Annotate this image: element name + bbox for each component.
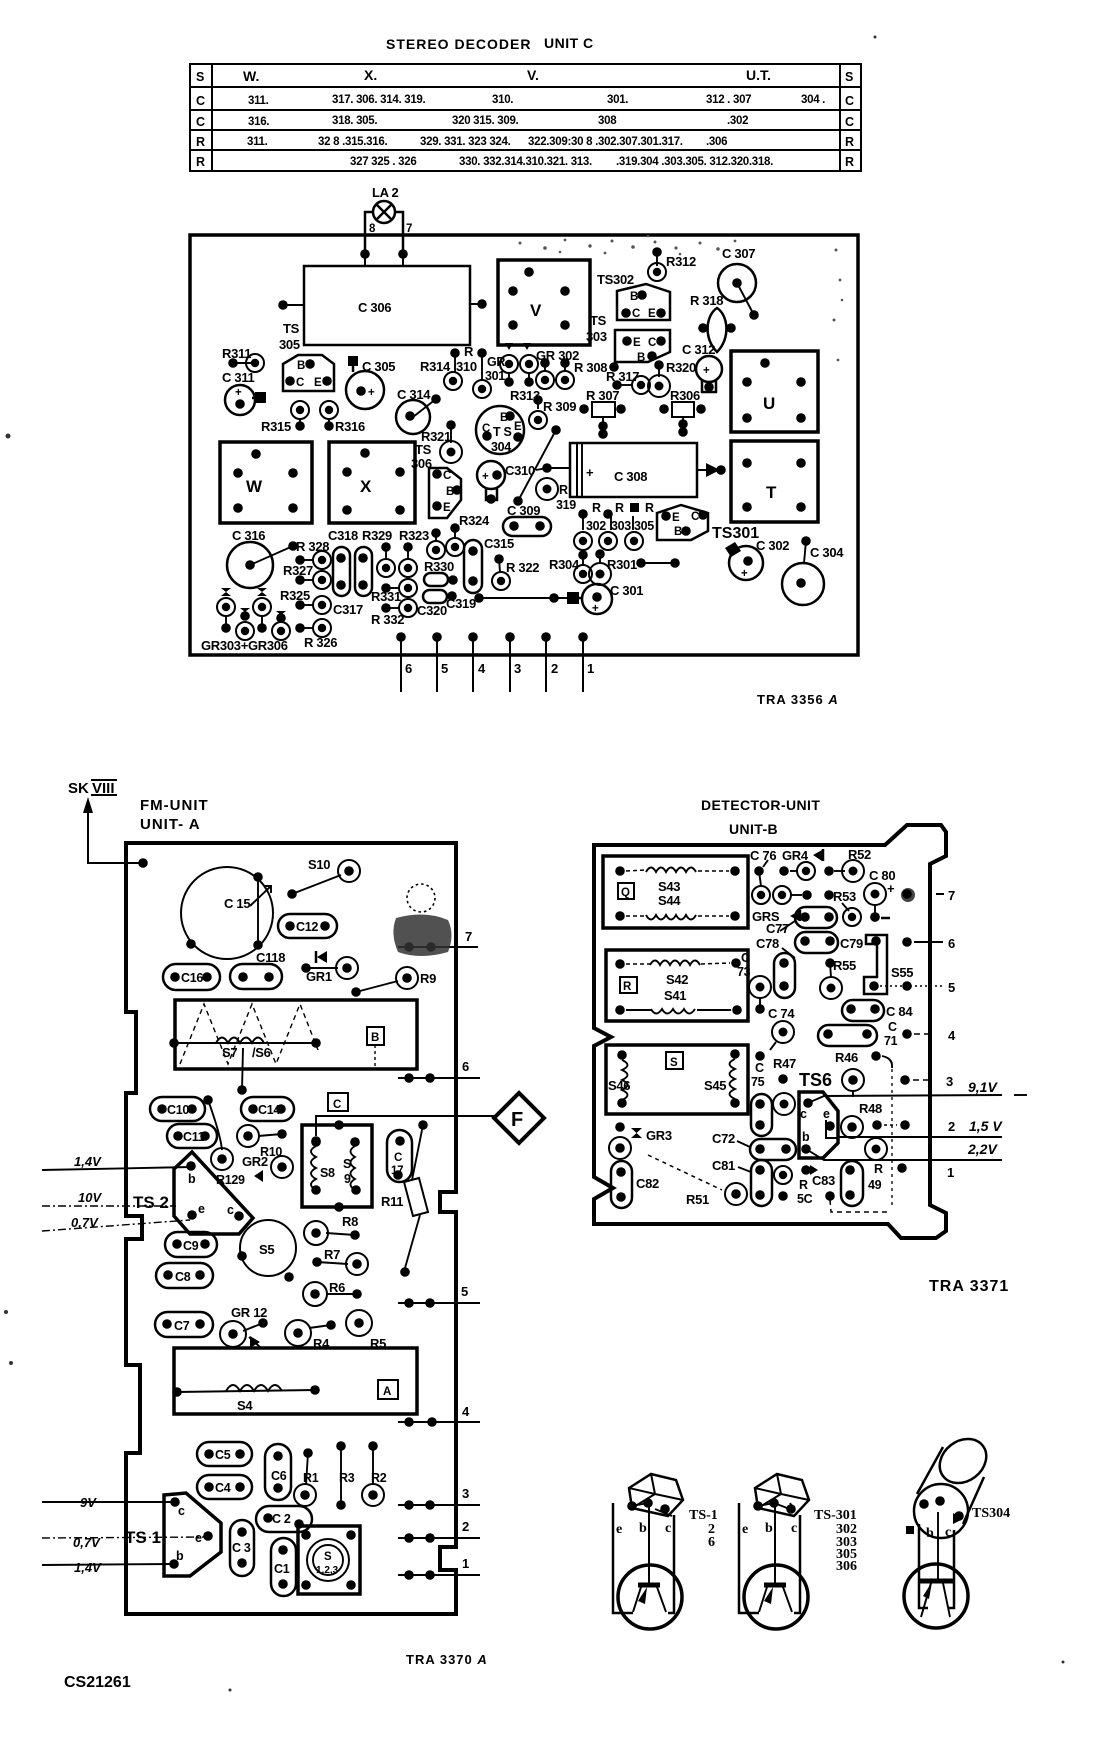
svg-text:49: 49 bbox=[868, 1178, 882, 1192]
resistor R304 bbox=[549, 550, 592, 583]
table column headers W X V U.T. bbox=[243, 67, 771, 84]
svg-text:GR3: GR3 bbox=[646, 1128, 672, 1143]
svg-text:C6: C6 bbox=[271, 1469, 287, 1483]
svg-text:10V: 10V bbox=[78, 1190, 102, 1205]
resistor R301 bbox=[589, 549, 680, 585]
svg-text:303: 303 bbox=[611, 519, 631, 533]
wire F to S8 box bbox=[311, 1116, 494, 1146]
board pin 6 bbox=[396, 632, 412, 692]
svg-text:4: 4 bbox=[478, 661, 486, 676]
svg-text:C4: C4 bbox=[215, 1481, 231, 1495]
resistor R327 bbox=[283, 563, 331, 589]
node pad R53 lower bbox=[843, 908, 880, 926]
svg-text:R: R bbox=[645, 501, 654, 515]
transistor TS6 bbox=[799, 1070, 838, 1158]
coil box V bbox=[498, 260, 590, 345]
svg-text:+: + bbox=[586, 465, 594, 480]
resistors R314 R310 bbox=[420, 344, 491, 398]
svg-text:311.: 311. bbox=[248, 95, 269, 107]
svg-text:.306: .306 bbox=[706, 136, 727, 148]
board pin 4 bbox=[468, 632, 486, 692]
svg-text:R47: R47 bbox=[773, 1056, 796, 1071]
svg-text:3: 3 bbox=[462, 1486, 469, 1501]
svg-text:R 318: R 318 bbox=[690, 293, 723, 308]
svg-text:R 309: R 309 bbox=[543, 399, 576, 414]
svg-text:+: + bbox=[368, 387, 375, 399]
svg-text:C 312: C 312 bbox=[682, 342, 715, 357]
capacitor C76 bbox=[750, 848, 776, 886]
svg-text:9: 9 bbox=[344, 1172, 351, 1186]
svg-text:S7: S7 bbox=[222, 1045, 237, 1060]
board pin 7 bbox=[398, 929, 478, 952]
capacitor C4 bbox=[197, 1475, 252, 1499]
svg-text:B: B bbox=[637, 352, 645, 364]
svg-text:306: 306 bbox=[836, 1559, 857, 1574]
svg-text:5: 5 bbox=[441, 661, 448, 676]
table row C2 values bbox=[248, 115, 748, 128]
resistor R55 bbox=[820, 958, 856, 999]
svg-text:C77: C77 bbox=[766, 921, 789, 936]
svg-text:e: e bbox=[198, 1202, 205, 1216]
svg-text:S10: S10 bbox=[308, 857, 330, 872]
svg-text:R6: R6 bbox=[329, 1280, 345, 1295]
capacitor C12 bbox=[278, 914, 337, 938]
table row R values bbox=[247, 136, 727, 148]
table row C values bbox=[248, 94, 825, 107]
table frame bbox=[190, 64, 861, 171]
board pin 5 bbox=[432, 632, 448, 692]
svg-text:1: 1 bbox=[947, 1165, 954, 1180]
diode GR301 bbox=[485, 343, 538, 387]
transistor TS301 outline bbox=[657, 505, 708, 540]
svg-text:C11: C11 bbox=[183, 1130, 205, 1144]
svg-text:C: C bbox=[648, 337, 656, 349]
svg-text:C14: C14 bbox=[258, 1103, 280, 1117]
svg-text:R312: R312 bbox=[666, 254, 696, 269]
node 10V bbox=[42, 1190, 176, 1206]
capacitor C81 bbox=[712, 1158, 772, 1206]
transistor package TS-1 drawing bbox=[613, 1474, 718, 1629]
svg-text:TRA 3371: TRA 3371 bbox=[929, 1278, 1009, 1295]
svg-text:C: C bbox=[632, 308, 640, 320]
svg-text:310: 310 bbox=[456, 359, 477, 374]
transistor package TS-301 drawing bbox=[739, 1474, 857, 1629]
svg-text:R51: R51 bbox=[686, 1192, 709, 1207]
svg-text:c: c bbox=[791, 1521, 797, 1536]
svg-text:C: C bbox=[691, 511, 699, 523]
svg-text:C318: C318 bbox=[328, 528, 358, 543]
transistor TS304 can bbox=[476, 406, 524, 454]
board pin 3 bbox=[900, 1074, 953, 1089]
resistor R52 bbox=[842, 847, 871, 882]
svg-text:TS304: TS304 bbox=[972, 1506, 1010, 1521]
svg-text:c: c bbox=[945, 1525, 951, 1540]
svg-text:DETECTOR-UNIT: DETECTOR-UNIT bbox=[701, 797, 820, 813]
resistor R8 bbox=[304, 1214, 360, 1245]
svg-text:C72: C72 bbox=[712, 1131, 735, 1146]
capacitor C78 bbox=[756, 932, 838, 958]
diode GR3 bbox=[609, 1122, 722, 1190]
wire LA2 pin8 to C306 bbox=[364, 254, 366, 266]
svg-text:305: 305 bbox=[279, 337, 300, 352]
diode GR302 bbox=[536, 348, 579, 389]
resistor R326 bbox=[295, 619, 337, 650]
svg-text:6: 6 bbox=[405, 661, 412, 676]
wire SK VIII arrow to board bbox=[83, 797, 148, 868]
svg-text:TRA 3356 A: TRA 3356 A bbox=[757, 692, 839, 707]
board pin 5 bbox=[870, 980, 955, 995]
resistor R308 bbox=[574, 360, 619, 375]
svg-text:b: b bbox=[802, 1130, 810, 1144]
solder blob near pin7 bbox=[393, 884, 451, 956]
resistor R48 bbox=[841, 1101, 910, 1138]
coil box W bbox=[220, 442, 312, 523]
svg-text:c: c bbox=[227, 1203, 234, 1217]
svg-text:X.: X. bbox=[364, 67, 377, 83]
diode GR12 bbox=[220, 1305, 268, 1348]
wire C319 to C301 bbox=[474, 593, 567, 603]
resistor R319 bbox=[536, 478, 576, 512]
capacitor C318 bbox=[328, 528, 358, 596]
svg-text:Q: Q bbox=[621, 887, 630, 899]
svg-text:319: 319 bbox=[556, 498, 576, 512]
svg-text:32 8 .315.316.: 32 8 .315.316. bbox=[318, 136, 387, 148]
capacitor C304 bbox=[782, 536, 844, 605]
capacitor C72 bbox=[712, 1131, 796, 1160]
svg-text:R: R bbox=[196, 155, 205, 169]
svg-text:LA 2: LA 2 bbox=[372, 185, 399, 200]
resistor R328 bbox=[295, 539, 331, 569]
svg-text:R: R bbox=[799, 1178, 808, 1192]
svg-text:R: R bbox=[615, 501, 624, 515]
svg-text:R329: R329 bbox=[362, 528, 392, 543]
svg-text:R 322: R 322 bbox=[506, 560, 539, 575]
resistor R324 bbox=[427, 513, 490, 559]
svg-text:C79: C79 bbox=[840, 936, 863, 951]
resistor R46 bbox=[835, 1050, 892, 1097]
svg-text:GR4: GR4 bbox=[782, 848, 809, 863]
svg-text:R325: R325 bbox=[280, 588, 310, 603]
resistor R309 bbox=[518, 395, 576, 501]
svg-text:C82: C82 bbox=[636, 1176, 659, 1191]
resistor R6 bbox=[303, 1280, 362, 1306]
coil box S bbox=[606, 1045, 748, 1114]
resistor R53 bbox=[833, 889, 856, 911]
capacitor C312 bbox=[682, 342, 722, 392]
transistor TS303 bbox=[586, 313, 670, 364]
svg-text:.302: .302 bbox=[727, 115, 748, 127]
resistor R4 bbox=[285, 1320, 336, 1351]
svg-text:B: B bbox=[371, 1032, 379, 1044]
svg-text:303: 303 bbox=[586, 329, 607, 344]
resistor R323 bbox=[377, 528, 429, 577]
svg-text:X: X bbox=[360, 477, 372, 496]
svg-text:317. 306. 314. 319.: 317. 306. 314. 319. bbox=[332, 94, 426, 106]
svg-text:S8: S8 bbox=[320, 1166, 335, 1180]
svg-text:S4: S4 bbox=[237, 1398, 253, 1413]
resistor R50 bbox=[774, 1166, 813, 1206]
capacitor C77 bbox=[766, 907, 837, 936]
connector F bbox=[494, 1093, 544, 1143]
svg-text:+: + bbox=[887, 881, 895, 896]
svg-text:TS-1: TS-1 bbox=[689, 1508, 718, 1523]
capacitor C10 bbox=[150, 1097, 205, 1121]
svg-text:C: C bbox=[196, 94, 205, 108]
svg-text:3: 3 bbox=[946, 1074, 953, 1089]
svg-text:2: 2 bbox=[462, 1519, 469, 1534]
svg-text:1,5 V: 1,5 V bbox=[969, 1118, 1003, 1134]
svg-text:5: 5 bbox=[948, 980, 955, 995]
svg-text:C 308: C 308 bbox=[614, 469, 647, 484]
svg-text:GR 12: GR 12 bbox=[231, 1305, 267, 1320]
resistor R3 bbox=[336, 1441, 355, 1510]
svg-text:1: 1 bbox=[587, 661, 594, 676]
capacitor C118 bbox=[230, 950, 285, 989]
svg-text:C 311: C 311 bbox=[222, 370, 255, 385]
wire C306 left lead bbox=[283, 304, 304, 306]
svg-text:TS302: TS302 bbox=[597, 272, 634, 287]
resistor R329 bbox=[355, 528, 392, 596]
svg-text:FM-UNIT: FM-UNIT bbox=[140, 797, 209, 814]
svg-text:B: B bbox=[674, 526, 682, 538]
svg-text:318. 305.: 318. 305. bbox=[332, 115, 377, 127]
svg-text:TS: TS bbox=[283, 321, 300, 336]
svg-text:TS 2: TS 2 bbox=[133, 1193, 169, 1212]
capacitor C307 bbox=[718, 246, 759, 320]
svg-text:C: C bbox=[845, 94, 854, 108]
svg-text:R48: R48 bbox=[859, 1101, 882, 1116]
capacitor C71 bbox=[818, 1020, 898, 1048]
svg-text:S44: S44 bbox=[658, 893, 681, 908]
resistor R332 bbox=[371, 599, 417, 627]
svg-text:8: 8 bbox=[369, 223, 376, 235]
svg-text:2,2V: 2,2V bbox=[967, 1141, 998, 1157]
svg-text:b: b bbox=[639, 1521, 647, 1536]
board pin 6 bbox=[902, 936, 955, 951]
resistor R316 bbox=[320, 401, 365, 434]
svg-text:GR1: GR1 bbox=[306, 969, 332, 984]
svg-text:R: R bbox=[845, 155, 854, 169]
switch S 1,2,3 bbox=[298, 1526, 360, 1594]
svg-text:C 302: C 302 bbox=[756, 538, 789, 553]
svg-text:C310: C310 bbox=[505, 463, 535, 478]
svg-text:S55: S55 bbox=[891, 965, 913, 980]
svg-text:T: T bbox=[766, 483, 777, 502]
svg-text:E: E bbox=[648, 308, 656, 320]
resistor R322 bbox=[492, 554, 539, 590]
svg-text:C: C bbox=[296, 377, 304, 389]
board pin 1 bbox=[578, 632, 594, 692]
resistor R47 bbox=[773, 1056, 796, 1115]
board pin 1 line bbox=[398, 1556, 480, 1580]
svg-text:4: 4 bbox=[462, 1404, 470, 1419]
transistor package TS304 drawing bbox=[904, 1430, 1010, 1628]
svg-text:F: F bbox=[511, 1109, 523, 1131]
svg-text:304 .: 304 . bbox=[801, 94, 825, 106]
svg-text:TS: TS bbox=[590, 313, 607, 328]
svg-text:c: c bbox=[178, 1504, 185, 1518]
svg-text:R: R bbox=[559, 483, 568, 497]
svg-text:5C: 5C bbox=[797, 1192, 813, 1206]
lamp LA2 bbox=[365, 185, 412, 254]
svg-text:C83: C83 bbox=[812, 1173, 835, 1188]
board pin 1 bbox=[897, 1163, 954, 1180]
capacitor C306 bbox=[304, 266, 470, 345]
svg-text:TS6: TS6 bbox=[799, 1070, 832, 1090]
svg-text:7: 7 bbox=[465, 929, 472, 944]
svg-text:/S6: /S6 bbox=[252, 1045, 271, 1060]
capacitor C14 bbox=[241, 1097, 294, 1121]
capacitor C73 bbox=[737, 951, 795, 1014]
svg-text:17: 17 bbox=[391, 1165, 403, 1177]
svg-text:C9: C9 bbox=[183, 1239, 199, 1253]
svg-text:310.: 310. bbox=[492, 94, 513, 106]
svg-text:R11: R11 bbox=[381, 1194, 403, 1209]
svg-text:R53: R53 bbox=[833, 889, 856, 904]
resistor R5 bbox=[346, 1310, 386, 1351]
svg-text:R 307: R 307 bbox=[586, 388, 619, 403]
svg-text:C 301: C 301 bbox=[610, 583, 643, 598]
wire LA2 pin7 to C306 bbox=[402, 254, 404, 266]
svg-text:E: E bbox=[514, 421, 522, 433]
coil box U bbox=[731, 351, 818, 432]
capacitor C316 bbox=[227, 528, 298, 588]
svg-text:C81: C81 bbox=[712, 1158, 735, 1173]
wire 22V from TS6 b bbox=[806, 1149, 1002, 1160]
svg-text:R 317: R 317 bbox=[606, 369, 639, 384]
svg-text:R306: R306 bbox=[670, 388, 700, 403]
svg-text:TRA 3370 A: TRA 3370 A bbox=[406, 1652, 488, 1667]
coil box T bbox=[731, 441, 818, 522]
transistor TS305 outline bbox=[283, 355, 334, 391]
svg-text:R7: R7 bbox=[324, 1247, 340, 1262]
coil box R bbox=[606, 950, 748, 1021]
capacitor C84 bbox=[842, 1000, 913, 1021]
resistor R321 bbox=[421, 420, 462, 463]
label SK VIII bbox=[68, 780, 117, 797]
svg-text:327 325 . 326: 327 325 . 326 bbox=[350, 156, 416, 168]
svg-text:E: E bbox=[633, 337, 641, 349]
svg-text:S: S bbox=[343, 1157, 351, 1171]
svg-text:R: R bbox=[845, 135, 854, 149]
coil box Q bbox=[603, 856, 748, 928]
svg-text:R314: R314 bbox=[420, 359, 451, 374]
svg-text:W.: W. bbox=[243, 68, 259, 84]
svg-text:V: V bbox=[530, 301, 542, 320]
node 0,7V TS1 bbox=[42, 1535, 208, 1550]
svg-text:75: 75 bbox=[751, 1075, 765, 1089]
capacitor C80 bbox=[864, 868, 915, 922]
node 1,4V TS1 bbox=[42, 1560, 174, 1575]
board pin 4 bbox=[902, 1028, 956, 1043]
svg-text:C5: C5 bbox=[215, 1448, 231, 1462]
svg-text:R46: R46 bbox=[835, 1050, 858, 1065]
svg-text:7: 7 bbox=[948, 888, 955, 903]
svg-text:TS: TS bbox=[415, 442, 432, 457]
svg-text:R: R bbox=[592, 501, 601, 515]
svg-text:C7: C7 bbox=[174, 1319, 190, 1333]
resistor R320 bbox=[648, 360, 696, 397]
svg-text:304: 304 bbox=[491, 440, 511, 454]
svg-text:S5: S5 bbox=[259, 1242, 274, 1257]
svg-text:+: + bbox=[482, 471, 489, 483]
svg-text:C 316: C 316 bbox=[232, 528, 265, 543]
board pin 2 bbox=[948, 1119, 955, 1134]
svg-text:W: W bbox=[246, 477, 263, 496]
resistor R10 bbox=[237, 1125, 287, 1159]
svg-text:C10: C10 bbox=[167, 1103, 189, 1117]
resistors R302 R303 R305 bbox=[574, 501, 654, 550]
resistor R307 bbox=[579, 388, 626, 439]
svg-text:C: C bbox=[845, 115, 854, 129]
svg-text:S: S bbox=[324, 1551, 332, 1563]
capacitor C74 bbox=[768, 1006, 795, 1050]
detector board outline TRA3371 bbox=[594, 825, 946, 1238]
capacitor C311 bbox=[222, 370, 266, 415]
board pin 5 line bbox=[398, 1284, 480, 1308]
board pin 3 bbox=[505, 632, 521, 692]
capacitor C5 bbox=[197, 1442, 252, 1466]
resistor R7 bbox=[312, 1247, 368, 1275]
node pads row2 bbox=[752, 886, 834, 904]
svg-text:S: S bbox=[196, 70, 204, 84]
resistor R318 bbox=[690, 293, 736, 352]
board pin 4 line bbox=[398, 1404, 480, 1427]
svg-text:T S: T S bbox=[493, 425, 512, 439]
svg-text:73: 73 bbox=[737, 965, 751, 979]
svg-text:C: C bbox=[196, 115, 205, 129]
svg-text:C8: C8 bbox=[175, 1270, 191, 1284]
svg-text:C1: C1 bbox=[274, 1562, 290, 1576]
svg-text:1,4V: 1,4V bbox=[74, 1560, 102, 1575]
svg-text:C 3: C 3 bbox=[232, 1541, 251, 1555]
svg-text:S41: S41 bbox=[664, 988, 686, 1003]
capacitor C75 bbox=[751, 1051, 772, 1136]
svg-text:C16: C16 bbox=[181, 971, 203, 985]
coil box S8 S9 bbox=[302, 1120, 372, 1212]
resistor R9 bbox=[351, 967, 436, 997]
node 1,4V bbox=[42, 1154, 191, 1170]
capacitor C315 bbox=[464, 536, 514, 593]
svg-text:5: 5 bbox=[461, 1284, 468, 1299]
svg-text:UNIT-B: UNIT-B bbox=[729, 821, 778, 837]
FM unit board outline TRA3370 bbox=[126, 843, 456, 1614]
main decoder board TRA3356 outline bbox=[190, 235, 858, 655]
svg-text:.319.304 .303.305. 312.320.31: .319.304 .303.305. 312.320.318. bbox=[616, 156, 773, 168]
svg-text:2: 2 bbox=[948, 1119, 955, 1134]
svg-text:329. 331. 323 324.: 329. 331. 323 324. bbox=[420, 136, 511, 148]
svg-text:322.309:30 8 .302.307.301.317.: 322.309:30 8 .302.307.301.317. bbox=[528, 136, 683, 148]
svg-text:b: b bbox=[926, 1526, 934, 1541]
svg-text:330. 332.314.310.321. 313.: 330. 332.314.310.321. 313. bbox=[459, 156, 592, 168]
svg-text:e: e bbox=[195, 1531, 202, 1545]
svg-text:R55: R55 bbox=[833, 958, 856, 973]
resistor R2 bbox=[362, 1441, 387, 1506]
capacitor C79 bbox=[840, 935, 887, 994]
resistor R129 bbox=[203, 1095, 263, 1187]
svg-text:C 84: C 84 bbox=[886, 1004, 913, 1019]
node 0,7V bbox=[42, 1215, 190, 1231]
capacitor C3 bbox=[230, 1520, 254, 1576]
diode GR5 bbox=[752, 909, 800, 924]
resistor R325 bbox=[280, 588, 331, 614]
svg-text:6: 6 bbox=[462, 1059, 469, 1074]
resistor R317 bbox=[606, 369, 650, 394]
variable capacitor C15 bbox=[181, 867, 273, 959]
resistor R313 bbox=[510, 388, 540, 409]
svg-text:311.: 311. bbox=[247, 136, 268, 148]
svg-text:C 307: C 307 bbox=[722, 246, 755, 261]
